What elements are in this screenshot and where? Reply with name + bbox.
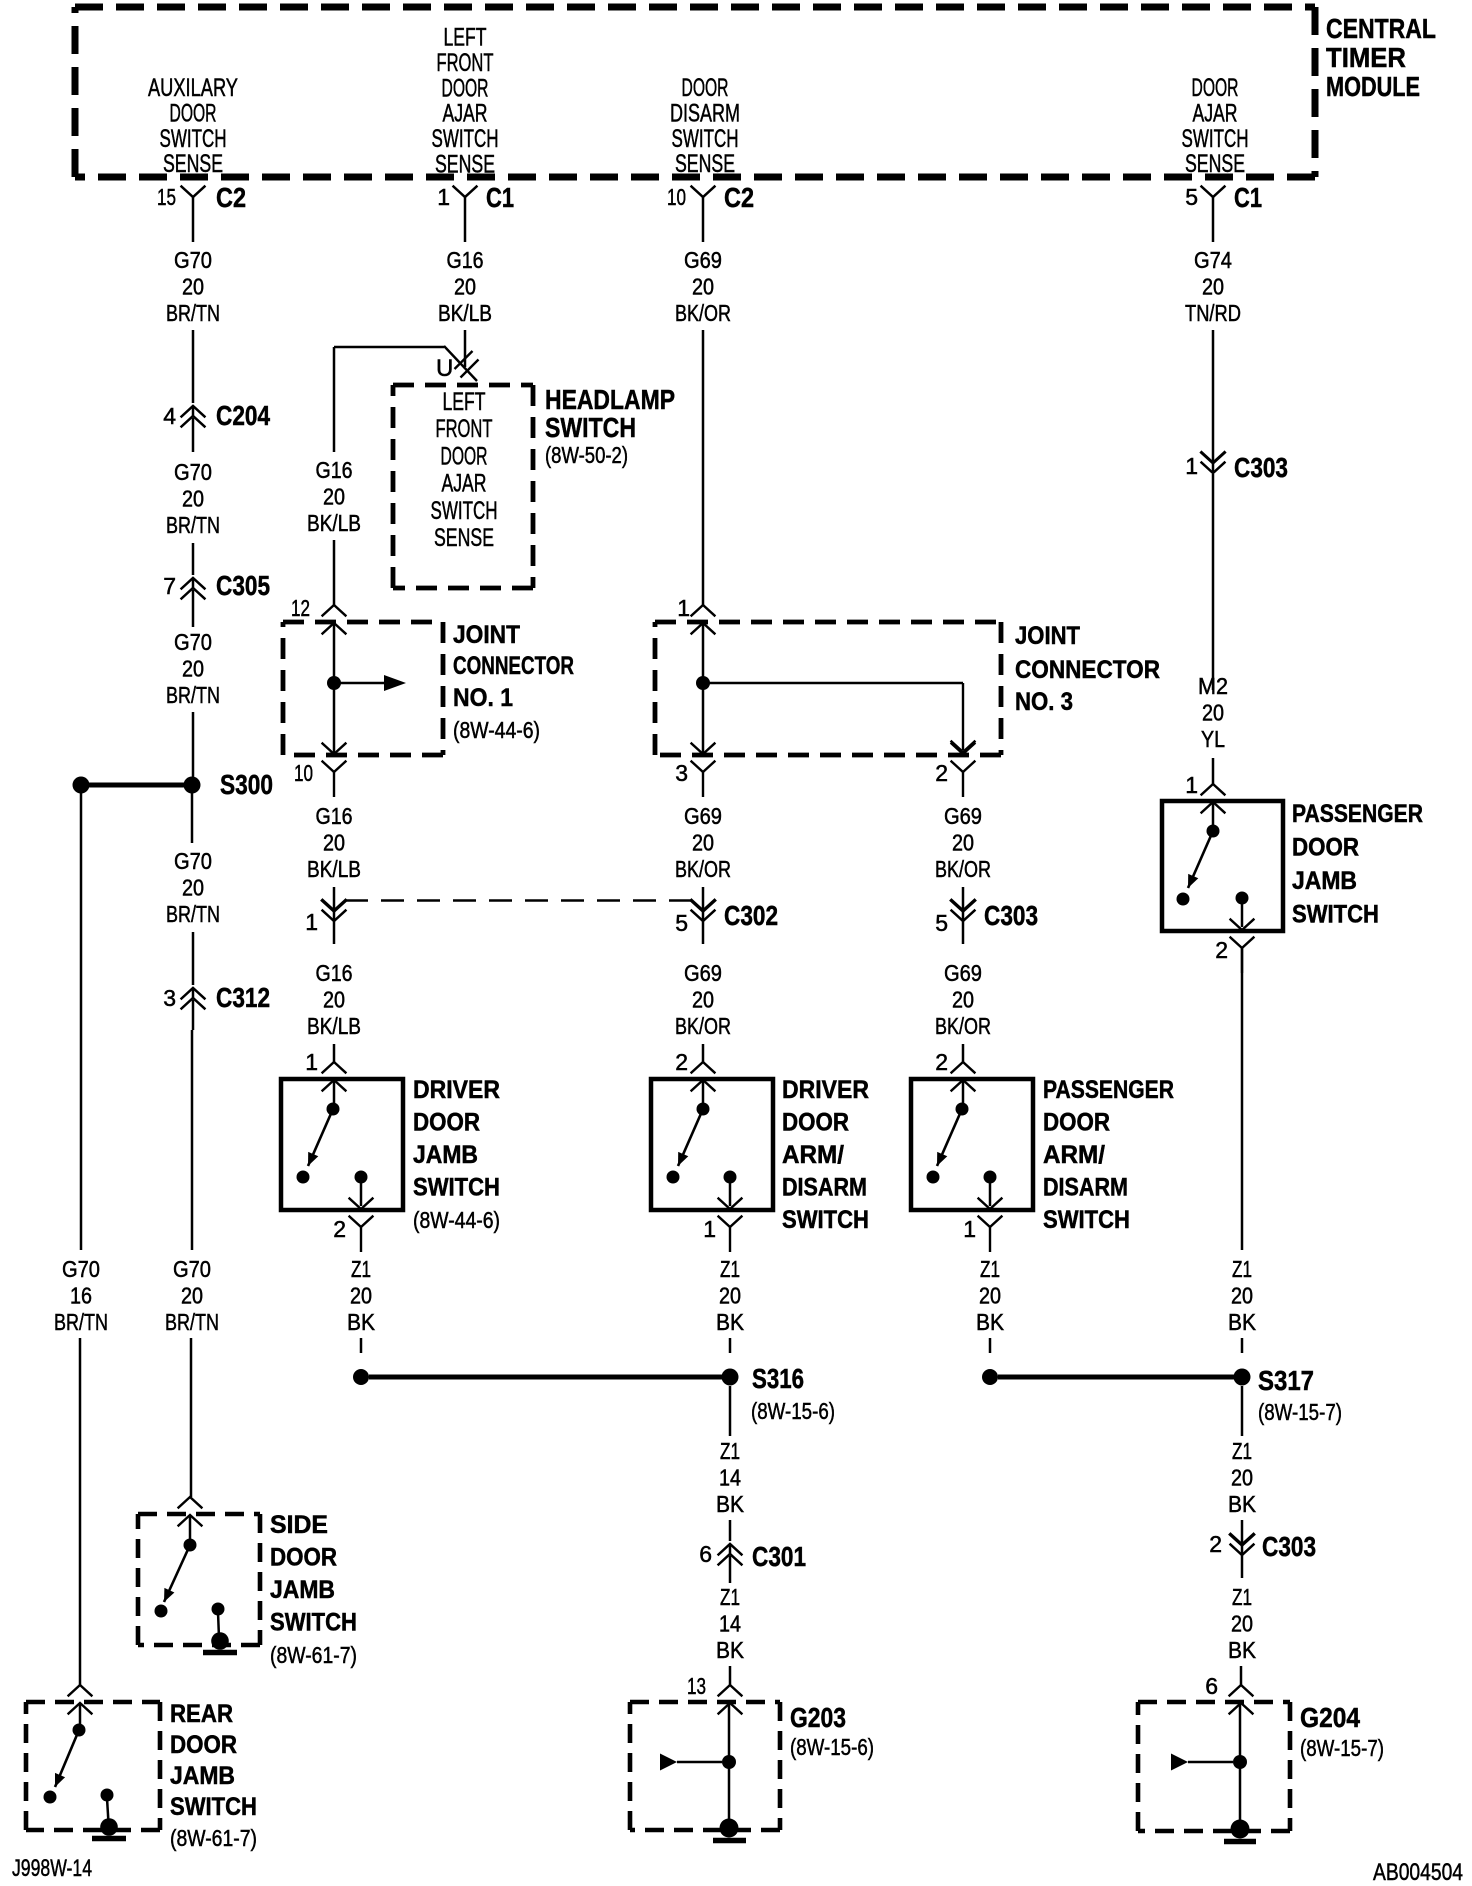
svg-text:BK: BK (716, 1637, 745, 1663)
splice S300 (73, 769, 274, 800)
svg-text:HEADLAMP: HEADLAMP (545, 384, 675, 415)
wire (333, 887, 336, 911)
rear door jamb switch (26, 1685, 160, 1839)
wire (192, 330, 195, 403)
svg-text:BK/LB: BK/LB (307, 510, 361, 536)
svg-text:BR/TN: BR/TN (166, 300, 220, 326)
wire (1241, 1520, 1244, 1545)
label side door jamb switch (270, 1511, 357, 1668)
splice S316 (722, 1363, 836, 1424)
wire (1241, 1386, 1244, 1436)
wire (464, 330, 467, 367)
svg-text:BR/TN: BR/TN (165, 1309, 219, 1335)
svg-text:BR/TN: BR/TN (166, 682, 220, 708)
svg-text:BK: BK (716, 1491, 745, 1517)
driver door arm/disarm switch contacts (667, 1081, 737, 1206)
svg-text:AUXILARY: AUXILARY (148, 74, 238, 102)
svg-text:1: 1 (1185, 453, 1198, 479)
svg-text:3: 3 (675, 760, 688, 786)
svg-text:C302: C302 (724, 900, 778, 931)
svg-text:(8W-61-7): (8W-61-7) (170, 1825, 257, 1851)
label door disarm switch sense (670, 74, 740, 178)
svg-text:20: 20 (323, 484, 345, 510)
in-line connector C305 pin 7 (163, 570, 270, 627)
svg-text:DOOR: DOOR (170, 99, 217, 127)
svg-text:Z1: Z1 (720, 1584, 740, 1610)
svg-text:C303: C303 (1234, 452, 1288, 483)
svg-text:ARM/: ARM/ (782, 1141, 844, 1169)
svg-text:1: 1 (305, 909, 318, 935)
joint connector no.1 internal bus (327, 624, 406, 753)
svg-text:SENSE: SENSE (435, 151, 495, 179)
ground G204 symbol (1171, 1704, 1256, 1842)
svg-text:Z1: Z1 (1232, 1584, 1252, 1610)
svg-text:5: 5 (1185, 184, 1198, 210)
svg-text:PASSENGER: PASSENGER (1292, 800, 1423, 828)
wire (989, 1338, 992, 1353)
splice dot at driver door jamb output (353, 1369, 369, 1385)
wire (729, 1666, 732, 1685)
svg-text:2: 2 (675, 1049, 688, 1075)
wire (360, 1338, 363, 1353)
driver door arm/disarm switch pin 2 (675, 1049, 714, 1091)
wire (1241, 1338, 1244, 1353)
svg-text:DOOR: DOOR (413, 1109, 480, 1137)
svg-text:C301: C301 (752, 1541, 806, 1572)
wire (702, 330, 705, 605)
svg-text:C1: C1 (486, 182, 514, 213)
svg-text:FRONT: FRONT (436, 415, 493, 443)
wire (1241, 948, 1244, 1250)
svg-text:20: 20 (692, 987, 714, 1013)
svg-text:2: 2 (333, 1216, 346, 1242)
svg-text:REAR: REAR (170, 1700, 233, 1728)
label driver door arm/disarm switch (782, 1076, 869, 1234)
svg-text:FRONT: FRONT (437, 49, 494, 77)
in-line connector C303 pin 1 (1185, 452, 1288, 690)
wire (729, 1386, 732, 1436)
connector pin 10 C2 (667, 182, 754, 242)
wire to headlamp switch branch (334, 346, 477, 381)
svg-text:15: 15 (157, 184, 176, 210)
svg-text:AJAR: AJAR (442, 470, 487, 498)
ground G203 symbol (660, 1704, 746, 1841)
dashed link wire to C302 (345, 899, 692, 901)
svg-text:6: 6 (699, 1541, 712, 1567)
wire (962, 887, 965, 911)
svg-text:BK/OR: BK/OR (935, 1013, 991, 1039)
svg-text:JOINT: JOINT (1015, 622, 1080, 650)
passenger door jamb switch box (1162, 801, 1283, 931)
svg-text:G69: G69 (684, 247, 722, 273)
svg-text:Z1: Z1 (720, 1256, 740, 1282)
svg-text:AB004504: AB004504 (1373, 1859, 1463, 1886)
svg-text:J998W-14: J998W-14 (12, 1855, 92, 1882)
svg-text:DOOR: DOOR (1043, 1109, 1110, 1137)
passenger door jamb switch pin 2 (1215, 920, 1253, 974)
wire (702, 1044, 705, 1062)
side door jamb switch (138, 1497, 260, 1653)
svg-text:1: 1 (703, 1216, 716, 1242)
svg-text:JAMB: JAMB (413, 1141, 478, 1169)
svg-text:20: 20 (1231, 1465, 1253, 1491)
driver door arm/disarm switch pin 1 (703, 1199, 741, 1253)
svg-text:DRIVER: DRIVER (782, 1076, 869, 1104)
svg-text:20: 20 (1202, 700, 1224, 726)
svg-text:2: 2 (1215, 937, 1228, 963)
connector U to headlamp switch (436, 351, 479, 382)
svg-text:NO. 1: NO. 1 (453, 684, 513, 712)
wire (962, 1044, 965, 1062)
svg-text:1: 1 (1185, 772, 1198, 798)
svg-text:YL: YL (1201, 726, 1225, 752)
splice bus wire to S317 (998, 1375, 1234, 1380)
svg-text:20: 20 (182, 875, 204, 901)
ground G203 box (630, 1702, 780, 1830)
svg-text:(8W-50-2): (8W-50-2) (545, 442, 628, 468)
svg-text:1: 1 (437, 184, 450, 210)
svg-text:DRIVER: DRIVER (413, 1076, 500, 1104)
svg-text:BK/OR: BK/OR (675, 856, 731, 882)
svg-text:(8W-15-6): (8W-15-6) (790, 1734, 874, 1760)
svg-text:SENSE: SENSE (1185, 150, 1245, 178)
in-line connector C204 pin 4 (163, 400, 270, 452)
svg-text:NO. 3: NO. 3 (1015, 688, 1073, 716)
svg-text:ARM/: ARM/ (1043, 1141, 1105, 1169)
svg-text:BK: BK (1228, 1491, 1257, 1517)
joint connector no.1 box (283, 622, 443, 755)
label passenger door jamb switch (1292, 800, 1423, 929)
svg-text:SIDE: SIDE (270, 1511, 328, 1539)
svg-text:BK/OR: BK/OR (675, 300, 731, 326)
svg-text:U: U (436, 355, 453, 382)
svg-text:DOOR: DOOR (170, 1731, 237, 1759)
svg-text:DOOR: DOOR (442, 74, 489, 102)
joint connector no.1 pin 10 (294, 744, 346, 798)
svg-text:Z1: Z1 (980, 1256, 1000, 1282)
svg-text:G16: G16 (316, 457, 353, 483)
svg-text:(8W-15-7): (8W-15-7) (1258, 1399, 1342, 1425)
svg-text:DOOR: DOOR (1192, 74, 1239, 102)
svg-text:4: 4 (163, 403, 176, 429)
driver door jamb switch pin 2 (333, 1199, 372, 1253)
svg-text:SWITCH: SWITCH (1043, 1206, 1130, 1234)
label G204 (1300, 1702, 1384, 1761)
svg-text:G16: G16 (316, 960, 353, 986)
svg-text:S300: S300 (220, 769, 273, 800)
wire (729, 1520, 732, 1541)
connector pin 1 C1 (437, 182, 514, 242)
svg-text:G69: G69 (944, 803, 982, 829)
svg-text:BK: BK (1228, 1309, 1257, 1335)
svg-text:C305: C305 (216, 570, 270, 601)
svg-text:G70: G70 (62, 1256, 100, 1282)
svg-text:G70: G70 (173, 1256, 211, 1282)
driver door jamb switch pin 1 (305, 1049, 345, 1091)
svg-text:M2: M2 (1198, 673, 1228, 699)
wire (192, 712, 195, 780)
in-line connector C303 pin 5 (935, 900, 1038, 944)
passenger door arm/disarm switch box (911, 1079, 1033, 1210)
svg-text:1: 1 (963, 1216, 976, 1242)
svg-text:C1: C1 (1234, 182, 1262, 213)
driver door jamb switch contacts (297, 1081, 368, 1206)
in-line connector C312 pin 3 (163, 982, 270, 1030)
svg-text:G16: G16 (316, 803, 353, 829)
svg-text:13: 13 (687, 1673, 706, 1699)
svg-text:BK/OR: BK/OR (675, 1013, 731, 1039)
splice bus wire to S316 (369, 1375, 722, 1380)
label G203 (790, 1702, 874, 1760)
svg-text:SWITCH: SWITCH (1182, 125, 1249, 153)
in-line connector C301 pin 6 (699, 1541, 806, 1583)
passenger door jamb switch contacts (1177, 803, 1249, 927)
svg-text:SWITCH: SWITCH (672, 125, 739, 153)
wire (1212, 758, 1215, 784)
svg-text:SENSE: SENSE (163, 150, 223, 178)
wire (192, 543, 195, 575)
svg-text:S316: S316 (752, 1363, 804, 1394)
svg-text:20: 20 (323, 830, 345, 856)
svg-text:SWITCH: SWITCH (545, 412, 636, 443)
passenger door arm/disarm switch contacts (927, 1081, 997, 1206)
svg-text:(8W-44-6): (8W-44-6) (453, 717, 540, 743)
svg-text:C204: C204 (216, 400, 270, 431)
wire (191, 790, 194, 843)
connector pin 15 C2 (157, 182, 246, 242)
label left front door ajar switch sense (headlamp) (431, 388, 498, 552)
wire (729, 1338, 732, 1353)
svg-text:G70: G70 (174, 629, 212, 655)
svg-text:SWITCH: SWITCH (270, 1609, 357, 1637)
svg-text:14: 14 (719, 1611, 741, 1637)
svg-text:SWITCH: SWITCH (413, 1174, 500, 1202)
joint connector no.3 pin 3 (675, 744, 714, 798)
svg-text:(8W-61-7): (8W-61-7) (270, 1642, 357, 1668)
svg-text:G70: G70 (174, 247, 212, 273)
svg-text:DOOR: DOOR (441, 442, 488, 470)
svg-text:TIMER: TIMER (1326, 42, 1406, 73)
svg-text:20: 20 (350, 1283, 372, 1309)
wire (1212, 330, 1215, 463)
splice S317 (1234, 1365, 1343, 1425)
svg-text:SWITCH: SWITCH (432, 125, 499, 153)
passenger door arm/disarm switch pin 2 (935, 1049, 974, 1091)
label joint connector no.1 (453, 621, 574, 743)
svg-text:5: 5 (935, 910, 948, 936)
connector pin 5 C1 (1185, 182, 1262, 242)
svg-text:DOOR: DOOR (782, 1109, 849, 1137)
svg-text:JAMB: JAMB (270, 1576, 335, 1604)
svg-text:SWITCH: SWITCH (170, 1793, 257, 1821)
label joint connector no.3 (1015, 622, 1160, 716)
svg-text:SENSE: SENSE (434, 524, 494, 552)
joint connector no.1 pin 12 (291, 595, 346, 634)
svg-text:20: 20 (182, 656, 204, 682)
svg-text:2: 2 (1209, 1531, 1222, 1557)
svg-text:3: 3 (163, 985, 176, 1011)
svg-text:20: 20 (323, 987, 345, 1013)
svg-text:7: 7 (163, 573, 176, 599)
svg-text:G69: G69 (684, 803, 722, 829)
svg-text:BK: BK (1228, 1637, 1257, 1663)
svg-text:C2: C2 (724, 182, 754, 213)
svg-text:C303: C303 (984, 900, 1038, 931)
svg-text:CONNECTOR: CONNECTOR (1015, 656, 1160, 684)
svg-text:Z1: Z1 (1232, 1256, 1252, 1282)
svg-text:CONNECTOR: CONNECTOR (453, 652, 574, 680)
svg-text:12: 12 (291, 595, 310, 621)
svg-text:20: 20 (952, 987, 974, 1013)
svg-text:10: 10 (294, 760, 313, 786)
svg-text:BK: BK (716, 1309, 745, 1335)
svg-text:2: 2 (935, 760, 948, 786)
wire (702, 887, 705, 911)
svg-text:10: 10 (667, 184, 686, 210)
svg-text:JOINT: JOINT (453, 621, 520, 649)
svg-text:G74: G74 (1194, 247, 1232, 273)
svg-text:SWITCH: SWITCH (782, 1206, 869, 1234)
svg-text:Z1: Z1 (351, 1256, 371, 1282)
svg-text:CENTRAL: CENTRAL (1326, 13, 1436, 44)
svg-text:20: 20 (181, 1283, 203, 1309)
in-line connector C303 pin 2 (1209, 1531, 1316, 1578)
svg-text:Z1: Z1 (1232, 1438, 1252, 1464)
svg-text:BR/TN: BR/TN (166, 901, 220, 927)
label left front door ajar switch sense (432, 24, 499, 179)
svg-text:G70: G70 (174, 848, 212, 874)
svg-text:14: 14 (719, 1465, 741, 1491)
svg-text:SWITCH: SWITCH (1292, 901, 1379, 929)
svg-text:DISARM: DISARM (1043, 1174, 1128, 1202)
svg-text:DOOR: DOOR (270, 1544, 337, 1572)
joint connector no.3 pin 1 (677, 595, 714, 634)
svg-text:5: 5 (675, 910, 688, 936)
in-line connector 1 with link to C302 (305, 901, 345, 945)
joint connector no.3 pin 2 (935, 744, 974, 798)
label auxiliary door switch sense (148, 74, 238, 178)
svg-text:BR/TN: BR/TN (54, 1309, 108, 1335)
svg-text:1: 1 (305, 1049, 318, 1075)
wire (1240, 1666, 1243, 1685)
svg-text:G203: G203 (790, 1702, 846, 1733)
svg-text:2: 2 (935, 1049, 948, 1075)
svg-text:SWITCH: SWITCH (160, 125, 227, 153)
joint connector no.3 internal bus (696, 624, 975, 753)
svg-text:G69: G69 (684, 960, 722, 986)
wire (192, 932, 195, 985)
svg-text:PASSENGER: PASSENGER (1043, 1076, 1174, 1104)
label rear door jamb switch (170, 1700, 257, 1851)
label driver door jamb switch (413, 1076, 500, 1233)
svg-text:G70: G70 (174, 459, 212, 485)
svg-text:LEFT: LEFT (444, 24, 487, 52)
svg-text:20: 20 (182, 486, 204, 512)
passenger door arm/disarm switch pin 1 (963, 1199, 1001, 1253)
svg-text:G204: G204 (1300, 1702, 1360, 1733)
svg-text:20: 20 (952, 830, 974, 856)
svg-text:BK/LB: BK/LB (438, 300, 492, 326)
svg-text:BK/LB: BK/LB (307, 1013, 361, 1039)
svg-text:(8W-44-6): (8W-44-6) (413, 1207, 500, 1233)
svg-text:BK: BK (976, 1309, 1005, 1335)
svg-text:20: 20 (979, 1283, 1001, 1309)
passenger door jamb switch pin 1 (1185, 772, 1224, 813)
svg-text:C2: C2 (216, 182, 246, 213)
svg-text:1: 1 (677, 595, 690, 621)
svg-text:G69: G69 (944, 960, 982, 986)
svg-text:C312: C312 (216, 982, 270, 1013)
svg-text:TN/RD: TN/RD (1185, 300, 1241, 326)
svg-text:20: 20 (182, 274, 204, 300)
svg-text:SENSE: SENSE (675, 150, 735, 178)
svg-text:Z1: Z1 (720, 1438, 740, 1464)
svg-text:20: 20 (1231, 1611, 1253, 1637)
svg-text:20: 20 (719, 1283, 741, 1309)
svg-text:DOOR: DOOR (682, 74, 729, 102)
headlamp switch box (393, 385, 533, 588)
central timer module box (75, 7, 1315, 177)
svg-text:20: 20 (692, 274, 714, 300)
joint connector no.3 box (655, 622, 1001, 755)
svg-text:AJAR: AJAR (443, 100, 488, 128)
ground G204 box (1138, 1702, 1290, 1831)
svg-text:BR/TN: BR/TN (166, 512, 220, 538)
svg-text:AJAR: AJAR (1193, 99, 1238, 127)
svg-text:DISARM: DISARM (670, 99, 740, 127)
svg-text:(8W-15-7): (8W-15-7) (1300, 1735, 1384, 1761)
svg-text:S317: S317 (1258, 1365, 1314, 1396)
svg-text:20: 20 (454, 274, 476, 300)
svg-text:C303: C303 (1262, 1531, 1316, 1562)
svg-text:6: 6 (1205, 1673, 1218, 1699)
svg-text:JAMB: JAMB (1292, 867, 1357, 895)
driver door arm/disarm switch box (651, 1079, 773, 1210)
svg-text:20: 20 (692, 830, 714, 856)
svg-text:G16: G16 (447, 247, 484, 273)
svg-text:BK: BK (347, 1309, 376, 1335)
svg-text:LEFT: LEFT (443, 388, 486, 416)
svg-text:BK/OR: BK/OR (935, 856, 991, 882)
label headlamp switch (545, 384, 675, 468)
svg-text:DOOR: DOOR (1292, 834, 1359, 862)
svg-text:DISARM: DISARM (782, 1174, 867, 1202)
svg-text:(8W-15-6): (8W-15-6) (751, 1398, 835, 1424)
ground G204 pin 6 (1205, 1673, 1252, 1714)
wire (80, 790, 83, 1250)
svg-text:20: 20 (1202, 274, 1224, 300)
svg-text:20: 20 (1231, 1283, 1253, 1309)
splice dot at passenger arm/disarm output (982, 1369, 998, 1385)
svg-text:SWITCH: SWITCH (431, 497, 498, 525)
svg-text:MODULE: MODULE (1326, 71, 1420, 102)
wire (190, 1338, 193, 1497)
svg-text:16: 16 (70, 1283, 92, 1309)
label passenger door arm/disarm switch (1043, 1076, 1174, 1234)
central timer module label (1326, 13, 1436, 102)
driver door jamb switch box (281, 1079, 403, 1210)
wire (191, 1030, 194, 1250)
in-line connector C302 pin 5 (675, 900, 778, 944)
label door ajar switch sense (1182, 74, 1249, 178)
svg-text:BK/LB: BK/LB (307, 856, 361, 882)
wire (333, 1044, 336, 1062)
svg-text:JAMB: JAMB (170, 1762, 235, 1790)
ground G203 pin 13 (687, 1673, 742, 1714)
wire (333, 540, 336, 605)
wire (333, 347, 336, 452)
wire (79, 1338, 82, 1685)
